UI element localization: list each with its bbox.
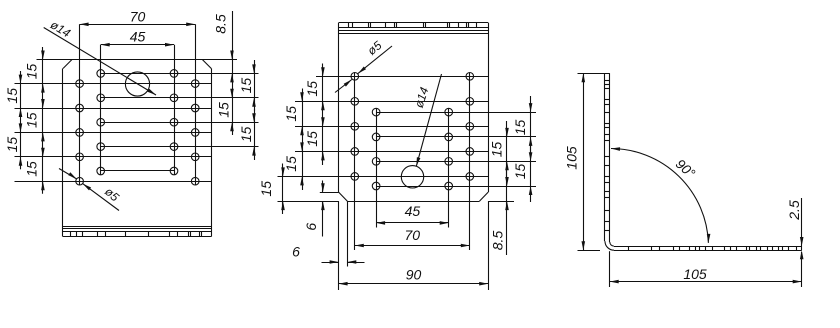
- svg-text:70: 70: [130, 8, 146, 24]
- svg-text:8.5: 8.5: [489, 231, 505, 251]
- view2 bottom edge extensions: [278, 193, 515, 202]
- svg-text:15: 15: [283, 156, 299, 172]
- svg-text:15: 15: [215, 102, 231, 118]
- view2 dim 8.5 right: [489, 170, 508, 255]
- view3 vertical leg serrations: [605, 81, 610, 231]
- view1 column centerlines: [80, 24, 196, 185]
- view2 right dims 15: [488, 96, 532, 202]
- view3 dim 2.5: [786, 198, 804, 259]
- view2 leader d5: [335, 38, 392, 92]
- view1 dim 8.5 right: [212, 11, 233, 85]
- svg-text:15: 15: [512, 164, 528, 180]
- view2 serration ticks: [349, 23, 477, 28]
- view2 leader d14: [412, 74, 442, 166]
- svg-text:15: 15: [304, 131, 320, 147]
- view1 serration ticks: [71, 231, 202, 236]
- view1 left dims 15: [4, 47, 45, 194]
- view1 plate outline: [37, 60, 238, 237]
- view2 dim 90: [339, 201, 489, 290]
- view2 left dims 15: [258, 64, 325, 215]
- svg-text:15: 15: [488, 142, 504, 158]
- svg-text:45: 45: [405, 203, 421, 219]
- view1 hole row lines outer: [15, 84, 212, 182]
- svg-text:105: 105: [683, 266, 707, 282]
- view1 hole row lines inner: [101, 74, 259, 171]
- svg-text:15: 15: [304, 81, 320, 97]
- svg-text:105: 105: [563, 146, 579, 170]
- svg-text:15: 15: [283, 106, 299, 122]
- svg-text:6: 6: [292, 243, 300, 259]
- svg-text:15: 15: [258, 181, 274, 197]
- view1 dim 45: [101, 28, 174, 46]
- view3 profile outline: [578, 73, 802, 250]
- view2 dim 6 vertical: [303, 181, 325, 237]
- view1 dim 70 top: [80, 8, 196, 26]
- svg-text:70: 70: [405, 227, 421, 243]
- view2 column centerlines: [355, 73, 470, 251]
- view3 dim 105 vertical: [563, 73, 600, 250]
- svg-text:ø14: ø14: [48, 18, 73, 41]
- view2 hole row lines outer: [278, 77, 489, 177]
- svg-text:45: 45: [130, 28, 146, 44]
- view1 small holes: [76, 70, 199, 185]
- svg-text:15: 15: [4, 137, 20, 153]
- svg-text:15: 15: [24, 64, 40, 80]
- svg-text:15: 15: [24, 112, 40, 128]
- svg-text:ø14: ø14: [412, 85, 432, 109]
- svg-text:15: 15: [4, 88, 20, 104]
- view2 dim 70: [355, 227, 470, 247]
- svg-text:15: 15: [238, 78, 254, 94]
- view2 hole row lines inner: [376, 113, 536, 187]
- svg-text:15: 15: [238, 126, 254, 142]
- svg-text:8.5: 8.5: [212, 14, 228, 34]
- view1 right dims 15: [215, 60, 255, 160]
- view2 dim 45: [376, 203, 449, 225]
- svg-text:6: 6: [303, 223, 319, 231]
- view1 leader d14: [44, 18, 156, 95]
- view3 angle 90 arc: [611, 147, 710, 243]
- svg-text:15: 15: [24, 161, 40, 177]
- svg-text:90: 90: [406, 266, 422, 282]
- svg-text:15: 15: [512, 120, 528, 136]
- view1 leader d5: [59, 169, 122, 211]
- view2 big hole d14: [401, 166, 423, 188]
- svg-text:2.5: 2.5: [786, 200, 802, 221]
- svg-text:ø5: ø5: [102, 185, 122, 205]
- svg-text:90°: 90°: [673, 156, 699, 181]
- view3 horizontal leg serrations: [629, 246, 797, 250]
- view2 plate outline: [339, 23, 489, 202]
- view2 dim 6 horizontal: [292, 201, 364, 290]
- view1 big hole d14: [125, 72, 149, 96]
- view3 dim 105 horizontal: [610, 251, 802, 287]
- view2 small holes: [351, 73, 474, 190]
